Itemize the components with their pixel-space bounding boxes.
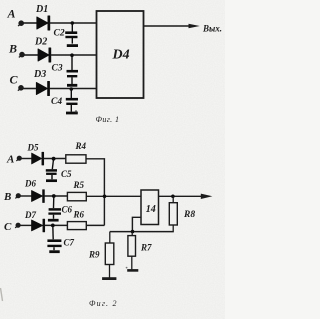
diode D5 [32, 152, 44, 165]
box Л4 [141, 190, 159, 225]
svg-text:B: B [8, 42, 17, 56]
diode D7 [32, 219, 45, 232]
svg-text:R7: R7 [140, 243, 152, 253]
capacitor C7 [47, 225, 61, 251]
box D4 [97, 11, 144, 98]
svg-text:14: 14 [146, 204, 156, 215]
bottom bus [110, 231, 174, 233]
wire A (diode to R4) [44, 158, 66, 160]
terminal B [19, 52, 25, 57]
wire B (terminal to diode) [19, 195, 32, 197]
wire C (diode to R6) [45, 224, 68, 226]
svg-text:B: B [3, 191, 11, 203]
svg-text:D1: D1 [35, 4, 48, 15]
wire C (R6 to bus) [86, 224, 104, 226]
capacitor C4 [66, 89, 78, 113]
resistor R7 [127, 232, 138, 271]
node bottom bus / R7 [131, 230, 135, 234]
capacitor C5 [46, 159, 57, 181]
capacitor C6 [48, 196, 61, 220]
terminal C [15, 223, 20, 228]
svg-text:C: C [10, 73, 19, 87]
wire (box bottom tap) [132, 217, 141, 231]
svg-text:D4: D4 [112, 48, 130, 63]
speck [75, 110, 77, 112]
svg-text:R4: R4 [75, 141, 87, 151]
wire C (diode to box D4) [50, 88, 97, 90]
svg-text:D3: D3 [33, 69, 46, 80]
wire C (terminal to diode) [22, 88, 36, 90]
resistor R5 [67, 192, 86, 200]
svg-text:R9: R9 [88, 250, 100, 260]
node on wire B [52, 194, 56, 198]
node on wire A [52, 157, 56, 161]
svg-text:A: A [6, 154, 14, 166]
svg-text:A: A [7, 7, 16, 21]
svg-text:C5: C5 [61, 169, 72, 179]
speck [126, 267, 128, 269]
wire B (terminal to diode) [23, 54, 38, 56]
svg-text:Вых.: Вых. [202, 24, 222, 34]
diode D2 [38, 48, 51, 62]
resistor R6 [67, 222, 86, 230]
svg-text:D5: D5 [27, 143, 39, 153]
resistor R8 [169, 196, 177, 231]
resistor R9 [102, 232, 116, 279]
svg-text:D7: D7 [24, 210, 36, 220]
svg-text:R6: R6 [73, 210, 85, 220]
svg-text:C2: C2 [54, 29, 65, 39]
svg-text:Фиг. 1: Фиг. 1 [96, 115, 120, 124]
wire A (terminal to diode) [22, 22, 37, 24]
capacitor C2 [65, 23, 78, 46]
terminal B [15, 194, 20, 199]
wire C (terminal to diode) [19, 224, 32, 226]
bus vertical [103, 159, 105, 226]
wire A (diode to box D4) [50, 22, 97, 24]
svg-text:D2: D2 [34, 37, 47, 48]
node bus/B [103, 195, 107, 199]
wire B (diode to R5) [44, 195, 67, 197]
node output/R8 [171, 195, 175, 199]
svg-text:C6: C6 [62, 205, 73, 215]
terminal A [16, 156, 21, 161]
svg-text:R5: R5 [73, 180, 85, 190]
svg-text:C: C [4, 221, 12, 233]
terminal A [18, 21, 24, 26]
node on wire C [70, 87, 74, 91]
output wire with arrow [144, 24, 200, 28]
diode D6 [32, 190, 45, 203]
wire A (R4 to bus) [86, 158, 104, 160]
terminal C [18, 86, 24, 91]
resistor R4 [66, 155, 86, 163]
svg-text:R8: R8 [183, 210, 195, 220]
svg-text:Фиг. 2: Фиг. 2 [89, 299, 118, 308]
svg-text:C4: C4 [51, 97, 62, 107]
wire A (terminal to diode) [21, 158, 32, 160]
svg-text:C7: C7 [64, 238, 75, 248]
node on wire B [70, 53, 74, 57]
svg-text:D6: D6 [24, 178, 36, 188]
wire B (diode to box D4) [51, 54, 97, 56]
capacitor C3 [67, 55, 79, 85]
node on wire C [51, 224, 55, 228]
diode D3 [36, 81, 49, 95]
diode D1 [37, 16, 50, 30]
wire B (R5 to box Л4) [86, 195, 141, 197]
page-edge smudge [1, 288, 3, 301]
node on wire A [71, 21, 75, 25]
output wire with arrow [159, 194, 213, 199]
svg-text:C3: C3 [52, 64, 63, 74]
